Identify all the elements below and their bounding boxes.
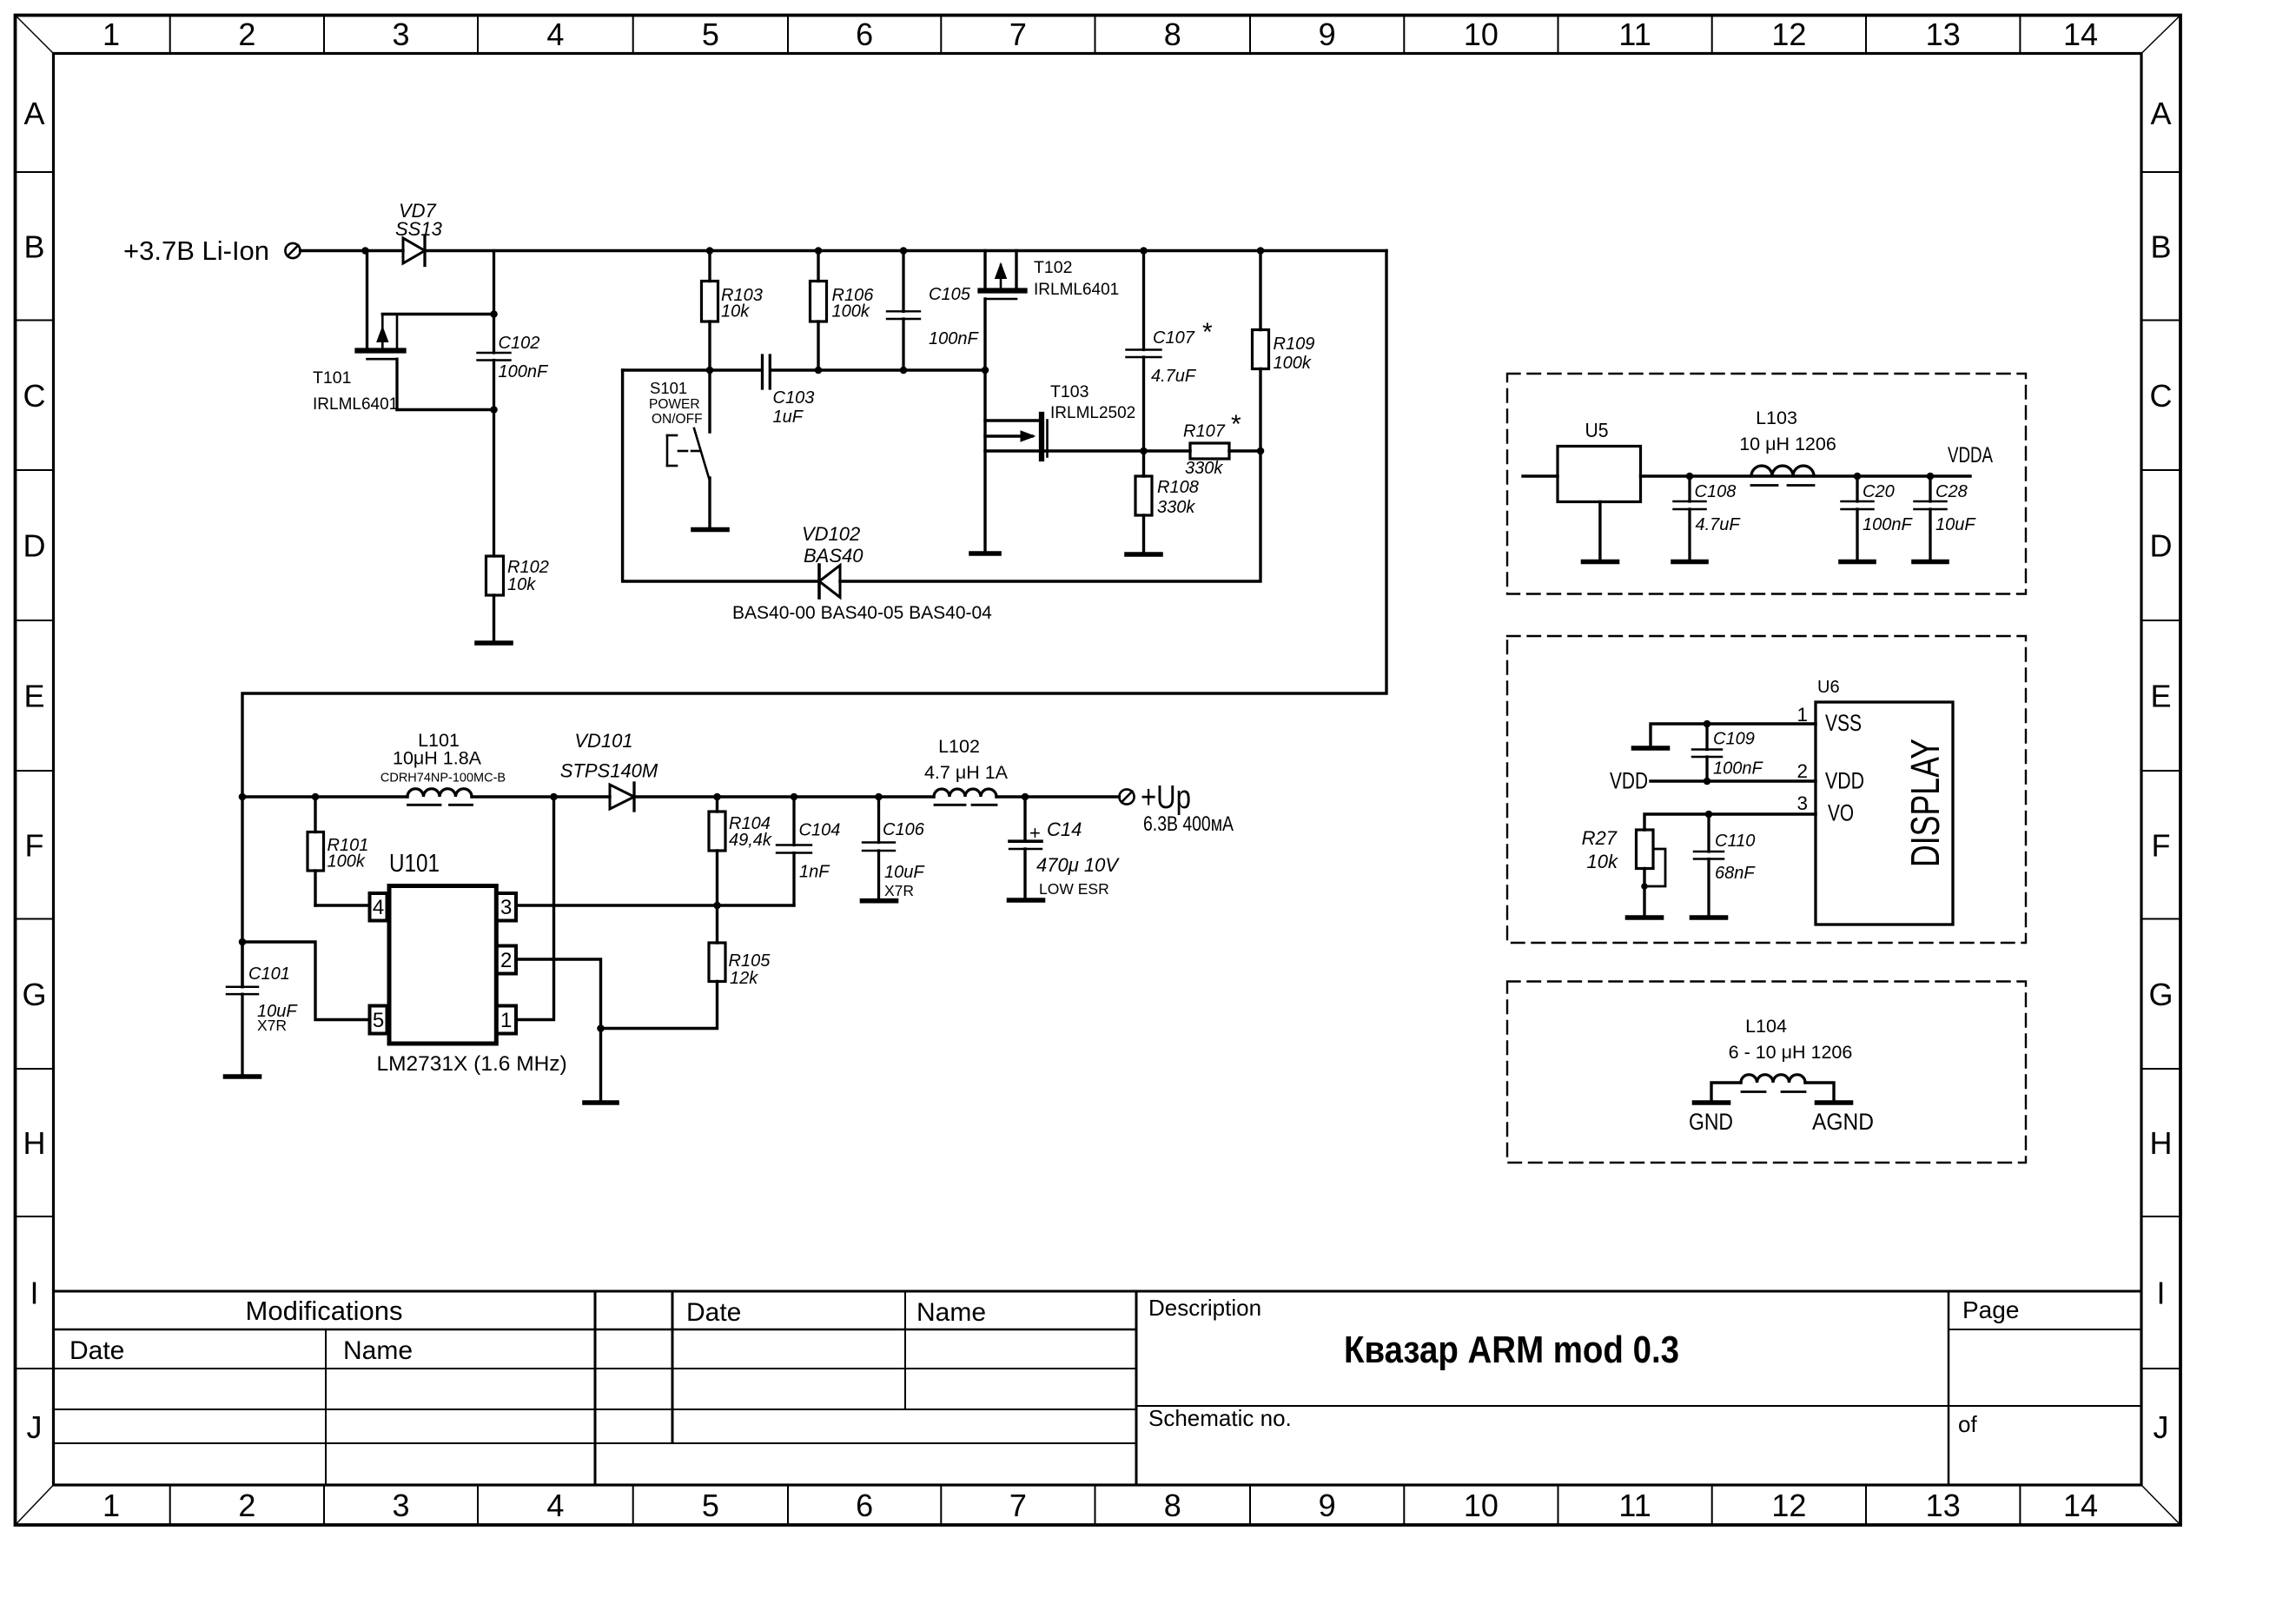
junction R103 bottom / S101 [706,367,714,375]
svg-text:DISPLAY: DISPLAY [1902,739,1948,867]
junction C110 top [1705,811,1713,819]
svg-text:J: J [27,1409,43,1445]
svg-text:C108: C108 [1695,482,1737,501]
capacitor C110 [1694,814,1724,915]
svg-text:13: 13 [1926,17,1961,52]
svg-text:+Up: +Up [1141,779,1191,816]
resistor R106 [811,251,827,371]
svg-text:IRLML6401: IRLML6401 [313,395,398,414]
svg-text:12: 12 [1771,1488,1806,1523]
svg-text:L103: L103 [1756,408,1797,428]
svg-text:POWER: POWER [649,397,700,412]
svg-text:7: 7 [1009,17,1027,52]
svg-text:9: 9 [1319,1488,1336,1523]
svg-text:100nF: 100nF [1713,759,1763,779]
inductor L104 [1741,1075,1805,1092]
svg-text:GND: GND [1689,1109,1733,1135]
label L102 4.7uH 1A [924,736,1009,783]
junction pin2/R105 ground node [597,1024,605,1032]
label LM2731X (1.6 MHz) [377,1052,567,1076]
ground under C106 [863,898,897,904]
label C109 100nF [1713,730,1763,779]
label R102 10k [507,558,549,594]
label VD102 BAS40 [802,523,863,567]
svg-text:C105: C105 [929,285,971,304]
svg-text:R105: R105 [729,951,771,971]
svg-text:H: H [2150,1125,2173,1161]
junction rail / T101 source [361,247,369,255]
transistor T101 IRLML6401 [358,251,404,410]
svg-text:Name: Name [343,1336,413,1365]
svg-text:12k: 12k [730,969,758,988]
svg-text:VDD: VDD [1825,768,1864,794]
svg-text:10k: 10k [507,575,536,594]
junction C28 top [1927,473,1935,481]
svg-text:11: 11 [1618,17,1651,52]
dashed box display supply [1507,636,2026,943]
svg-text:10uF: 10uF [1935,515,1976,534]
label R27 10k [1582,827,1618,872]
svg-text:BAS40: BAS40 [804,545,863,567]
wire T101 gate to C102 [382,313,493,315]
label C104 1nF [799,821,841,882]
ground under C110 [1692,915,1726,920]
svg-text:330k: 330k [1157,498,1195,517]
svg-text:2: 2 [238,17,255,52]
svg-text:10k: 10k [1587,851,1618,872]
svg-text:VDDA: VDDA [1948,443,1993,467]
capacitor C107 [1127,251,1161,452]
svg-text:Date: Date [69,1336,124,1365]
junction C109 bottom on VDD [1704,778,1711,785]
svg-text:4: 4 [546,1488,564,1523]
svg-text:B: B [2150,229,2171,264]
resistor R103 [702,251,718,371]
svg-text:10: 10 [1464,17,1499,52]
capacitor C104 [777,797,811,905]
svg-text:I: I [2156,1276,2165,1311]
svg-text:470μ 10V: 470μ 10V [1036,854,1120,876]
svg-text:49,4k: 49,4k [729,831,772,850]
wire S101 loop to R109 bottom [623,369,1260,582]
label T101 IRLML6401 [313,368,398,414]
svg-text:8: 8 [1164,1488,1181,1523]
label R106 100k [832,286,875,321]
svg-text:A: A [23,96,44,131]
svg-text:U5: U5 [1585,419,1609,441]
pin numbers U101 [373,896,513,1032]
svg-text:C107: C107 [1153,328,1195,348]
svg-text:R27: R27 [1582,827,1618,849]
svg-text:1: 1 [103,17,120,52]
svg-text:4.7uF: 4.7uF [1151,367,1197,386]
svg-text:10μH 1.8A: 10μH 1.8A [393,748,482,769]
junction C101 top [239,938,247,946]
label R105 12k [729,951,771,988]
svg-text:R109: R109 [1274,335,1315,354]
svg-text:B: B [23,229,44,264]
svg-text:6: 6 [856,17,873,52]
svg-text:6: 6 [856,1488,873,1523]
label VD7 SS13 [395,200,443,240]
diode VD7 [403,236,425,266]
svg-text:E: E [23,679,44,714]
junction R104 top [713,793,721,801]
label R109 100k [1274,335,1315,373]
ground under S101 [693,527,727,533]
capacitor C108 [1674,476,1706,560]
wire L104 right to AGND [1805,1083,1834,1100]
node VDD label [1610,768,1648,794]
label +Up 6.3V 400mA [1141,779,1234,836]
capacitor C28 [1915,476,1947,560]
svg-text:Modifications: Modifications [246,1296,403,1326]
svg-text:3: 3 [392,1488,409,1523]
capacitor C101 [227,942,258,1074]
svg-text:5: 5 [373,1009,384,1032]
svg-text:1: 1 [500,1009,512,1032]
junction C106 top [875,793,883,801]
svg-text:I: I [30,1276,38,1311]
label L103 10uH 1206 [1739,408,1836,454]
svg-text:*: * [1202,318,1213,347]
svg-text:VO: VO [1828,800,1854,826]
wire pin 2 to ground node [516,959,601,1029]
ground under C28 [1914,560,1947,565]
svg-text:F: F [2152,827,2171,863]
svg-text:*: * [1231,410,1241,439]
svg-text:R108: R108 [1157,478,1199,497]
svg-text:100k: 100k [832,302,870,321]
svg-text:C: C [2150,378,2173,414]
svg-text:4.7uF: 4.7uF [1696,515,1742,534]
ground GND [1695,1100,1729,1105]
label + C14 470u 10V LOW ESR [1029,819,1120,898]
resistor R108 [1135,451,1152,551]
svg-text:100nF: 100nF [929,329,979,348]
svg-text:VSS: VSS [1825,710,1862,736]
ground under C14 [1009,898,1043,903]
title block [54,1291,2142,1485]
junction T102 drain node [982,367,989,375]
svg-text:1: 1 [1796,704,1808,726]
svg-text:Page: Page [1962,1296,2019,1323]
label C110 68nF [1715,832,1756,883]
wire boost input rail [242,795,407,798]
capacitor C102 [478,251,511,557]
svg-text:C20: C20 [1863,482,1895,501]
pin labels U6 [1796,704,1864,826]
ground under C101 [226,1074,260,1079]
label R103 10k [721,286,763,321]
svg-text:3: 3 [1796,792,1808,814]
wire VO pin 3 to R27 [1644,814,1816,830]
svg-text:G: G [22,977,46,1012]
svg-text:S101: S101 [650,379,687,397]
svg-text:H: H [23,1125,46,1161]
junction R107/R109 node [1257,447,1265,455]
svg-text:11: 11 [1618,1488,1651,1523]
svg-text:E: E [2150,679,2171,714]
svg-text:C109: C109 [1713,730,1755,749]
svg-text:A: A [2150,96,2171,131]
diode VD102 BAS40 [819,565,840,598]
svg-text:5: 5 [702,1488,719,1523]
ground under R102 [477,640,511,646]
wire pin 1 to switch node [516,797,554,1020]
junction C102 top tap [490,310,498,318]
resistor R105 [601,905,726,1029]
resistor R104 [709,797,725,905]
svg-text:Name: Name [916,1298,986,1327]
svg-text:2: 2 [238,1488,255,1523]
junction L101/pin1 node [550,793,558,801]
svg-text:330k: 330k [1185,459,1223,478]
label T103 IRLML2502 [1050,382,1135,422]
svg-text:U6: U6 [1817,678,1840,697]
inductor L103 [1751,466,1814,486]
label S101 POWER ON/OFF [649,379,703,427]
label AGND [1812,1109,1874,1135]
svg-text:X7R: X7R [884,882,914,899]
wire L104 left to GND [1711,1083,1741,1100]
svg-text:IRLML2502: IRLML2502 [1050,404,1135,422]
svg-text:BAS40-00 BAS40-05 BAS40-04: BAS40-00 BAS40-05 BAS40-04 [732,603,992,623]
capacitor C103 [763,355,771,388]
svg-text:VD101: VD101 [574,730,632,752]
label VD101 STPS140M [560,730,658,782]
wire T103 source to R107 node [985,449,1260,452]
inductor L101 [407,789,473,805]
wire C101 node to pin 5 [242,942,370,1020]
svg-text:10uF: 10uF [884,863,925,882]
junction R106 top [815,247,823,255]
label T102 IRLML6401 [1034,258,1119,299]
label R101 100k [328,836,369,872]
svg-text:VDD: VDD [1610,768,1648,794]
label C28 10uF [1935,482,1976,534]
ground under C20 [1841,560,1874,565]
label DISPLAY [1902,739,1948,867]
junction R101 top [312,793,320,801]
svg-text:7: 7 [1009,1488,1027,1523]
svg-text:2: 2 [1796,760,1808,782]
svg-text:10: 10 [1464,1488,1499,1523]
junction C107 top [1140,247,1148,255]
svg-text:100k: 100k [328,852,366,872]
wire VD101 to L102 [634,795,934,798]
svg-text:C101: C101 [248,964,290,984]
junction C109 top [1704,720,1711,728]
svg-text:3: 3 [500,896,512,919]
wire L101 to VD101 [472,795,610,798]
svg-text:LM2731X (1.6 MHz): LM2731X (1.6 MHz) [377,1052,567,1076]
resistor R102 [486,556,504,640]
svg-text:6.3В 400мА: 6.3В 400мА [1143,812,1234,836]
label C102 100nF [499,334,549,381]
svg-text:G: G [2148,977,2173,1012]
junction R103 top [706,247,714,255]
svg-text:L102: L102 [938,736,980,757]
label C105 100nF [929,285,979,348]
junction C102 bottom tap [490,406,498,414]
svg-text:CDRH74NP-100MC-B: CDRH74NP-100MC-B [380,772,506,785]
capacitor C14 electrolytic [1009,797,1042,898]
IC U101 LM2731X [370,886,517,1044]
label R107 * 330k [1183,410,1241,478]
svg-text:13: 13 [1926,1488,1961,1523]
ground under C108 [1673,560,1706,565]
ground under U5 [1584,560,1618,565]
svg-text:F: F [25,827,44,863]
svg-text:8: 8 [1164,17,1181,52]
svg-text:IRLML6401: IRLML6401 [1034,281,1119,299]
label C107 * 4.7uF [1151,318,1213,386]
resistor R27 trimmer [1637,830,1666,915]
transistor T103 IRLML2502 [985,414,1048,459]
wire U5 output to VDDA [1641,474,1971,477]
wire ground node down [599,1029,602,1101]
wire rail corner down to boost input [242,251,1386,987]
ground under T102 drain chain [971,551,999,556]
junction boost input rail [239,793,247,801]
ground under U101 pin 2 node [585,1100,617,1105]
label R108 330k [1157,478,1199,517]
svg-text:T102: T102 [1034,258,1072,277]
svg-text:14: 14 [2063,17,2098,52]
svg-text:10 μH 1206: 10 μH 1206 [1739,434,1836,454]
svg-text:of: of [1958,1411,1977,1437]
wire T101 drain to C102 bottom [397,408,494,411]
svg-text:100nF: 100nF [499,362,549,381]
svg-text:Квазар ARM mod 0.3: Квазар ARM mod 0.3 [1344,1329,1679,1371]
inductor L102 [934,789,996,805]
label C103 1uF [773,388,815,427]
svg-text:C14: C14 [1047,819,1082,840]
svg-text:3: 3 [392,17,409,52]
svg-text:1nF: 1nF [799,863,830,882]
label C101 10uF X7R [248,964,298,1034]
svg-text:4: 4 [373,896,384,919]
svg-text:5: 5 [702,17,719,52]
svg-text:2: 2 [500,949,512,972]
svg-text:ON/OFF: ON/OFF [652,412,703,427]
node VDDA [1948,443,1993,467]
svg-text:68nF: 68nF [1715,864,1756,883]
transistor T102 IRLML6401 [981,251,1025,371]
terminal +Up output [1119,789,1134,804]
svg-text:J: J [2154,1409,2169,1445]
svg-text:D: D [2150,528,2173,564]
dashed box ground bridge [1507,982,2026,1163]
junction C105 bottom [900,367,908,375]
svg-text:D: D [23,528,46,564]
capacitor C106 [863,797,895,898]
junction R27 bottom [1641,883,1648,890]
svg-text:10k: 10k [721,302,750,321]
ground under R108 [1127,552,1161,557]
wire L102 to output [996,795,1119,798]
svg-text:Date: Date [686,1298,741,1327]
svg-text:STPS140M: STPS140M [560,760,658,782]
svg-text:+: + [1029,822,1041,844]
svg-text:X7R: X7R [257,1017,287,1034]
wire T102 drain down to ground [983,370,986,551]
junction R106 bottom [815,367,823,375]
label C108 4.7uF [1695,482,1742,534]
svg-text:4: 4 [546,17,564,52]
svg-text:100k: 100k [1274,354,1312,373]
junction C107/R108 node [1140,447,1148,455]
terminal +3.7V input [285,243,300,258]
label R104 49,4k [729,814,772,850]
node +3.7V Li-Ion input label [123,235,269,266]
svg-text:AGND: AGND [1812,1109,1874,1135]
svg-text:Description: Description [1148,1295,1261,1321]
capacitor C109 [1692,724,1722,781]
svg-text:L104: L104 [1745,1016,1787,1037]
label C106 10uF X7R [883,820,925,899]
svg-text:6 - 10 μH 1206: 6 - 10 μH 1206 [1729,1042,1853,1063]
junction feedback node R104/R105 [713,902,721,910]
resistor R107 [1190,443,1229,459]
svg-text:LOW ESR: LOW ESR [1039,880,1109,898]
svg-text:R102: R102 [507,558,549,577]
svg-text:Schematic no.: Schematic no. [1148,1405,1292,1431]
junction C105 top [900,247,908,255]
junction C104 top [791,793,798,801]
resistor R109 [1253,251,1269,369]
svg-text:12: 12 [1771,17,1806,52]
capacitor C105 [887,251,920,371]
svg-text:1: 1 [103,1488,120,1523]
wire pin 3 to feedback node [516,904,794,906]
svg-text:C110: C110 [1715,832,1755,851]
label L104 6-10uH 1206 [1729,1016,1853,1063]
svg-text:100nF: 100nF [1863,515,1913,534]
junction R109 top [1257,247,1265,255]
svg-text:4.7 μH 1A: 4.7 μH 1A [924,762,1009,783]
label BAS40-00 BAS40-05 BAS40-04 [732,603,992,623]
svg-text:VD102: VD102 [802,523,860,545]
svg-text:C28: C28 [1935,482,1968,501]
label GND [1689,1109,1733,1135]
dashed box U5 VDDA filter [1507,374,2026,594]
label U101 [389,850,440,878]
switch S101 POWER ON/OFF [667,370,710,527]
svg-text:C106: C106 [883,820,925,839]
label U5 [1585,419,1609,441]
junction C14 top [1022,793,1029,801]
wire +3.7V rail [301,249,1386,252]
svg-text:C104: C104 [799,821,841,840]
svg-text:+3.7В Li-Ion: +3.7В Li-Ion [123,235,269,266]
IC U6 DISPLAY [1816,702,1953,925]
svg-text:9: 9 [1319,17,1336,52]
svg-text:T101: T101 [313,368,351,388]
svg-text:C: C [23,378,46,414]
IC U5 [1523,447,1641,560]
ground AGND [1817,1100,1851,1105]
wire VSS pin 1 to ground [1651,724,1816,746]
svg-text:C102: C102 [499,334,540,353]
label C20 100nF [1863,482,1913,534]
ground under R27 [1628,915,1662,920]
wire VDD pin 2 [1651,779,1816,782]
svg-text:1uF: 1uF [773,408,804,427]
junction C20 top [1854,473,1862,481]
wire gate node R103-C103-R106-C105-T102 [623,368,985,371]
